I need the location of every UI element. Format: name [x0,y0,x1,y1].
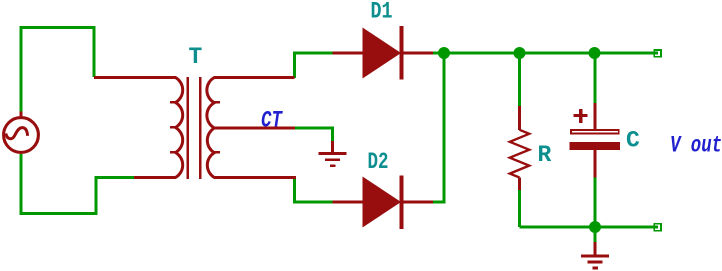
svg-text:D1: D1 [371,0,393,25]
svg-text:C: C [626,128,640,154]
svg-text:CT: CT [261,108,283,134]
svg-text:D2: D2 [368,149,389,175]
svg-text:V out: V out [670,133,722,159]
svg-text:T: T [189,44,203,70]
svg-text:R: R [538,142,552,168]
